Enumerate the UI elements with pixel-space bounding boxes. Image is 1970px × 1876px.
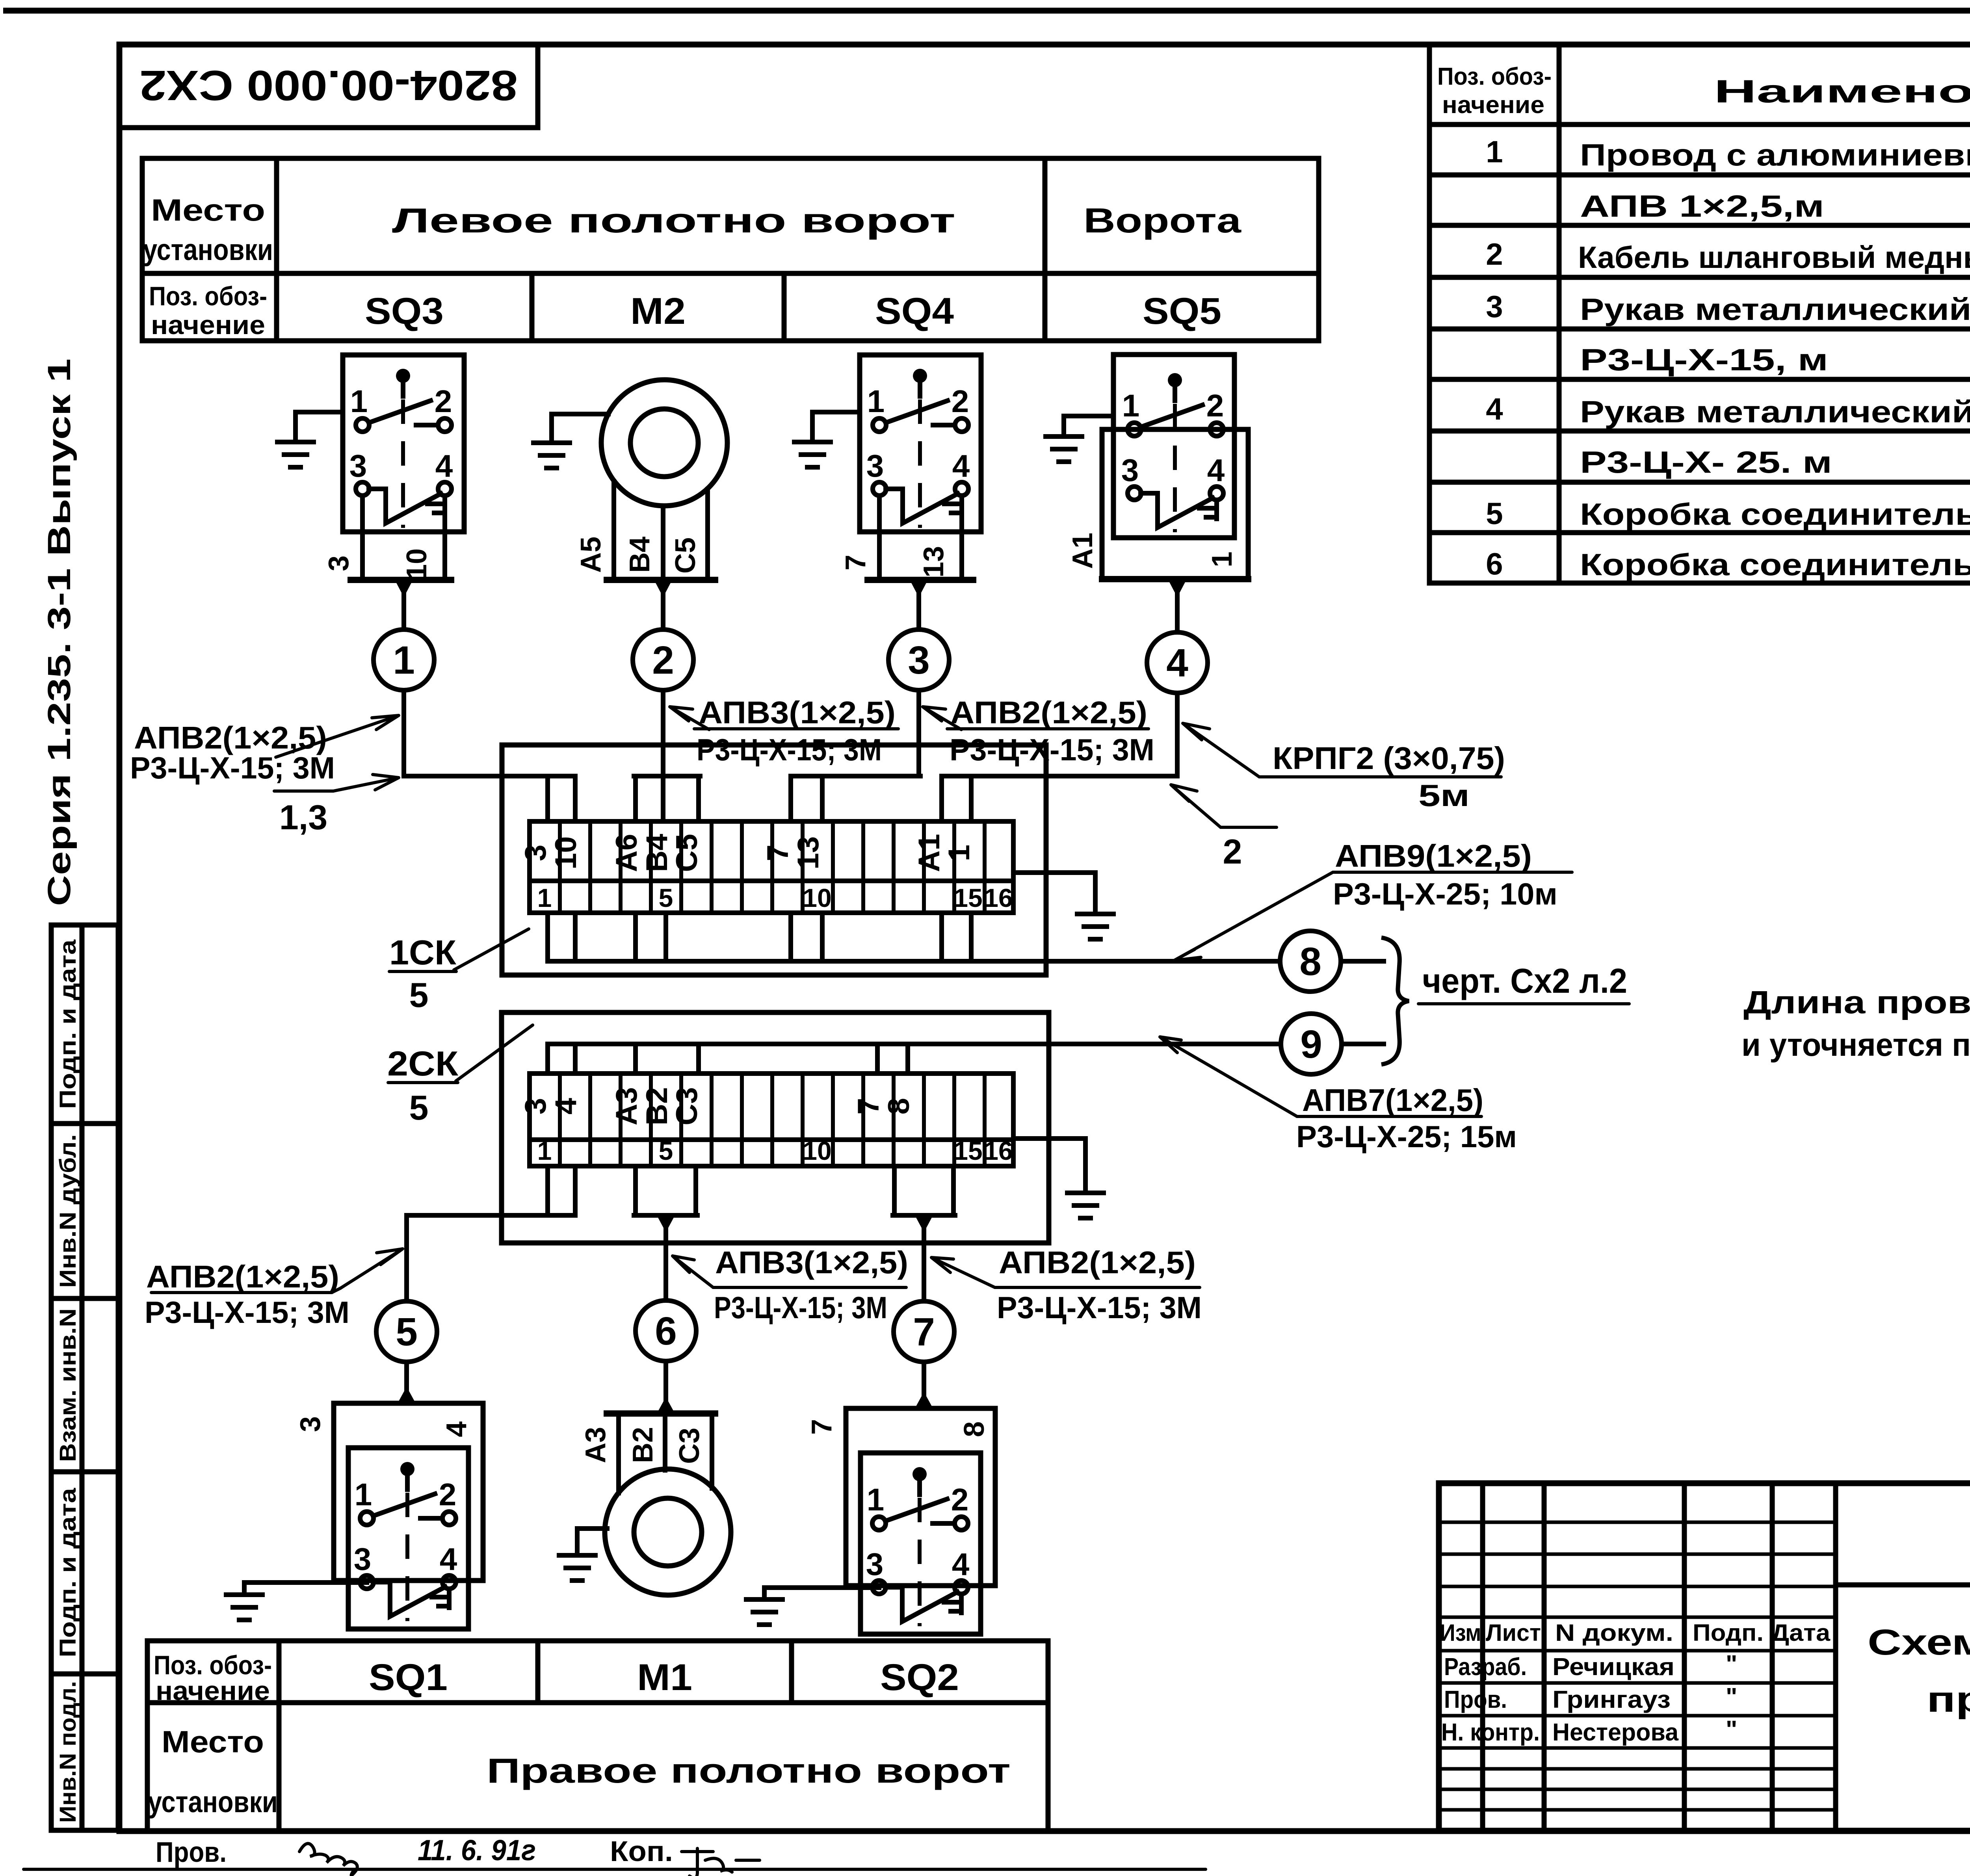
leader arrow to wire 5 — [340, 1249, 403, 1288]
svg-text:С5: С5 — [670, 537, 701, 574]
svg-text:6: 6 — [1486, 546, 1503, 581]
sheet top rule — [3, 8, 1970, 14]
svg-text:Р3-Ц-Х-25; 10м: Р3-Ц-Х-25; 10м — [1333, 877, 1557, 911]
svg-text:Коробка соединительная КСК-32: Коробка соединительная КСК-32 — [1580, 547, 1970, 582]
bus under M2 — [607, 577, 715, 583]
svg-text:13: 13 — [792, 836, 825, 870]
cable stem to circle 2 — [661, 580, 665, 630]
svg-text:3: 3 — [295, 1416, 326, 1432]
svg-text:4: 4 — [1166, 641, 1188, 685]
svg-text:10: 10 — [803, 1136, 831, 1165]
left sidebar column — [51, 925, 118, 1830]
svg-text:Поз. обоз-: Поз. обоз- — [1437, 63, 1552, 90]
svg-text:": " — [1726, 1716, 1737, 1743]
wire 6 to M1 — [663, 1361, 668, 1414]
top-left stamp box (inverted) 8204-00.000 CX2 — [119, 45, 538, 128]
ground of M1 — [559, 1529, 607, 1581]
svg-text:Лист: Лист — [1486, 1620, 1541, 1646]
wire 9 right stub — [1342, 1042, 1384, 1046]
svg-text:и уточняется при привязке п: и уточняется при привязке проекта. — [1741, 1027, 1970, 1063]
svg-text:Длина проводок 8,9 дана ори: Длина проводок 8,9 дана ориентировочно — [1743, 984, 1970, 1020]
svg-text:С5: С5 — [670, 834, 704, 872]
ground of SQ5 — [1046, 416, 1113, 462]
svg-text:установки: установки — [143, 233, 273, 267]
wire 4 down and left into box 1CK — [942, 693, 1177, 776]
cable marker triangle 6 bottom — [657, 1397, 675, 1414]
svg-text:Подп. и дата: Подп. и дата — [55, 1488, 81, 1657]
ground of SQ1 — [226, 1583, 367, 1620]
ground of 2CK — [1013, 1139, 1104, 1218]
svg-text:5м: 5м — [1418, 778, 1470, 813]
wire 7 from 2CK to circle 7 — [922, 1215, 926, 1301]
conduit stubs below strip 2CK — [548, 1166, 953, 1215]
wire 8 out of box — [1046, 959, 1280, 964]
cable stem to circle 3 — [916, 580, 921, 630]
svg-text:5: 5 — [409, 975, 429, 1014]
svg-text:SQ4: SQ4 — [875, 290, 954, 332]
svg-text:Р3-Ц-Х-15; 3М: Р3-Ц-Х-15; 3М — [145, 1295, 349, 1330]
svg-text:Кабель шланговый медный КРПГ3×: Кабель шланговый медный КРПГ3×0,75,м — [1578, 240, 1970, 275]
svg-text:11. 6. 91г: 11. 6. 91г — [418, 1834, 536, 1867]
cable circle 8 — [1280, 931, 1341, 992]
svg-text:1СК: 1СК — [389, 933, 456, 972]
svg-text:Инв.N дубл.: Инв.N дубл. — [55, 1134, 81, 1288]
svg-text:8: 8 — [882, 1098, 916, 1114]
row Разраб Речицкая — [1444, 1651, 1737, 1681]
conduit bar group B — [634, 774, 700, 778]
svg-text:8: 8 — [959, 1421, 990, 1437]
svg-text:А1: А1 — [1067, 533, 1098, 569]
title Схема внешних проводок — [1868, 1622, 1970, 1720]
ground of SQ3 — [277, 412, 343, 467]
cable marker triangle 4 — [1168, 580, 1186, 597]
svg-text:Наименование: Наименование — [1714, 74, 1970, 110]
cable marker triangle 1 — [395, 580, 413, 597]
svg-text:1: 1 — [537, 1136, 552, 1165]
svg-text:начение: начение — [156, 1676, 270, 1706]
svg-text:5: 5 — [396, 1310, 418, 1354]
label АПВ2 cable 5 — [145, 1259, 349, 1330]
svg-text:1,3: 1,3 — [279, 798, 327, 837]
leader arrow to wire 7 — [931, 1257, 995, 1287]
leader arrow to wire 9 — [1160, 1037, 1297, 1116]
svg-text:Рукав металлический гибкий: Рукав металлический гибкий — [1580, 394, 1970, 429]
svg-text:2: 2 — [1486, 237, 1503, 271]
wire 6 from 2CK to circle 6 — [663, 1215, 668, 1300]
bottom location table — [147, 1641, 1048, 1831]
svg-text:SQ2: SQ2 — [880, 1657, 959, 1698]
limit switch SQ3 — [343, 355, 464, 532]
title block — [1439, 1483, 1970, 1831]
limit switch SQ4 — [860, 355, 981, 532]
svg-text:1: 1 — [1206, 552, 1238, 567]
svg-text:АПВ 1×2,5,м: АПВ 1×2,5,м — [1580, 189, 1824, 223]
svg-text:Поз. обоз-: Поз. обоз- — [149, 281, 267, 311]
motor M2 — [601, 380, 727, 506]
svg-text:16: 16 — [984, 883, 1013, 912]
leader arrow to wire 6 — [673, 1256, 713, 1287]
wire 1 down and into box 1CK — [404, 690, 575, 776]
wire 5 bar under 2CK cells 1-2 — [407, 1213, 575, 1218]
wire 3 down to box 1CK — [916, 690, 921, 776]
svg-text:Р3-Ц-Х-15; 3М: Р3-Ц-Х-15; 3М — [714, 1290, 887, 1325]
svg-text:АПВ2(1×2,5): АПВ2(1×2,5) — [999, 1245, 1196, 1280]
wire 8 right stub — [1341, 959, 1384, 964]
conduit bottom bar group C 2CK — [893, 1213, 955, 1218]
wire 8 collector bar in 1CK — [548, 959, 1046, 964]
parts list table — [1429, 45, 1970, 583]
svg-text:Р3-Ц-Х-15, м: Р3-Ц-Х-15, м — [1580, 342, 1828, 377]
wire SQ3 pin4 to bus — [442, 496, 447, 580]
svg-text:КРПГ2 (3×0,75): КРПГ2 (3×0,75) — [1273, 741, 1505, 776]
wire 5 from 2CK to circle 5 — [404, 1215, 409, 1301]
svg-text:Р3-Ц-Х-15; 3М: Р3-Ц-Х-15; 3М — [697, 732, 882, 767]
cable marker triangle 6 top — [657, 1215, 675, 1232]
conduit bar group C — [791, 774, 920, 778]
label 2 with leader — [1171, 785, 1277, 871]
leader arrow to wire 3 — [923, 707, 961, 730]
svg-text:черт. Сх2 л.2: черт. Сх2 л.2 — [1422, 961, 1627, 1000]
limit switch SQ1 — [334, 1403, 483, 1629]
svg-text:АПВ2(1×2,5): АПВ2(1×2,5) — [950, 695, 1147, 730]
label АПВ2 cable 7 — [995, 1245, 1202, 1325]
svg-text:С3: С3 — [674, 1428, 705, 1464]
leader arrow to wire 2 — [670, 707, 709, 730]
cable marker triangle 3 — [910, 580, 928, 597]
svg-text:13: 13 — [918, 546, 950, 578]
label АПВ3 cable 2 — [694, 695, 898, 767]
leader 2CK — [456, 1025, 533, 1081]
svg-text:1: 1 — [942, 845, 976, 861]
ground of SQ2 — [746, 1588, 879, 1625]
svg-text:В2: В2 — [640, 1087, 674, 1125]
svg-text:Р3-Ц-Х-15; 3М: Р3-Ц-Х-15; 3М — [950, 732, 1154, 767]
cable circle 2 — [633, 630, 693, 690]
bus over M1 — [607, 1410, 715, 1417]
wire 9 out of box — [1049, 1042, 1281, 1046]
svg-text:1: 1 — [1486, 134, 1503, 169]
bus under SQ5 — [1102, 576, 1248, 582]
svg-text:АПВ2(1×2,5): АПВ2(1×2,5) — [146, 1259, 339, 1294]
svg-text:проводок: проводок — [1927, 1679, 1970, 1720]
svg-text:2: 2 — [652, 638, 674, 682]
svg-text:Подп. и дата: Подп. и дата — [55, 939, 81, 1109]
svg-text:N докум.: N докум. — [1555, 1620, 1673, 1646]
svg-text:7: 7 — [840, 555, 872, 570]
svg-text:Инв.N подл.: Инв.N подл. — [55, 1681, 81, 1823]
cable marker triangle 7 top — [915, 1215, 933, 1232]
svg-text:Место: Место — [151, 193, 265, 227]
svg-text:3: 3 — [519, 845, 552, 861]
header row Изм Лист N докум Подп Дата — [1440, 1620, 1831, 1646]
wire SQ4 pin4 to bus — [959, 496, 964, 580]
svg-text:В4: В4 — [640, 834, 674, 872]
handwritten signature 1 — [299, 1844, 357, 1876]
svg-text:АПВ3(1×2,5): АПВ3(1×2,5) — [715, 1245, 908, 1280]
svg-text:начение: начение — [1442, 91, 1544, 119]
brace for sheet reference — [1381, 938, 1409, 1064]
svg-text:Серия 1.235. 3-1 Выпуск 1: Серия 1.235. 3-1 Выпуск 1 — [41, 358, 77, 906]
svg-text:А3: А3 — [610, 1087, 643, 1125]
svg-text:Р3-Ц-Х-25; 15м: Р3-Ц-Х-25; 15м — [1296, 1119, 1517, 1154]
limit switch SQ5 — [1102, 355, 1248, 579]
row Н.контр Нестерова — [1441, 1716, 1737, 1746]
label АПВ3 cable 6 — [713, 1245, 908, 1325]
svg-text:3: 3 — [908, 638, 930, 682]
svg-text:15: 15 — [953, 1136, 982, 1165]
svg-text:Н. контр.: Н. контр. — [1441, 1719, 1540, 1746]
svg-text:SQ5: SQ5 — [1143, 290, 1221, 332]
cable circle 9 — [1281, 1014, 1342, 1074]
svg-text:С3: С3 — [670, 1087, 704, 1125]
bottom margin rule — [24, 1868, 1206, 1871]
junction box 2CK — [502, 1012, 1049, 1243]
conduit stubs above strip 1CK — [548, 776, 971, 821]
ground of 1CK — [1013, 873, 1113, 939]
svg-text:5: 5 — [659, 883, 673, 912]
svg-text:Грингауз: Грингауз — [1552, 1686, 1671, 1713]
svg-text:А6: А6 — [610, 834, 643, 872]
label КРПГ2 cable 4 — [1259, 741, 1505, 813]
svg-text:M2: M2 — [630, 290, 686, 332]
leader arrow to wire 8 — [1174, 872, 1333, 960]
cable marker triangle 7 bottom — [915, 1392, 933, 1408]
svg-text:Правое полотно ворот: Правое полотно ворот — [487, 1751, 1011, 1790]
svg-text:2: 2 — [1223, 832, 1242, 871]
conduit stubs below strip 1CK — [548, 913, 971, 961]
wire 9 collector bar in 2CK — [548, 1042, 1049, 1046]
label АПВ9 cable 8 — [1333, 838, 1572, 911]
leader arrow to wire 4 — [1183, 723, 1259, 777]
svg-text:Провод с алюминиевыми жилами: Провод с алюминиевыми жилами — [1580, 137, 1970, 172]
svg-text:Нестерова: Нестерова — [1552, 1719, 1679, 1746]
bus under SQ3 — [351, 577, 451, 583]
svg-text:8: 8 — [1299, 940, 1321, 984]
svg-text:начение: начение — [151, 310, 265, 340]
svg-text:В4: В4 — [624, 537, 656, 573]
leader arrow to wire 1 lower — [333, 775, 399, 791]
svg-text:АПВ9(1×2,5): АПВ9(1×2,5) — [1335, 838, 1532, 873]
svg-text:Место: Место — [162, 1724, 264, 1759]
svg-text:5: 5 — [659, 1136, 673, 1165]
wire 5 to SQ1 — [404, 1362, 409, 1403]
svg-text:10: 10 — [549, 836, 583, 870]
svg-text:": " — [1726, 1651, 1737, 1678]
svg-text:Пров.: Пров. — [156, 1837, 227, 1868]
terminal strip of 1CK — [530, 821, 1013, 913]
svg-text:Ворота: Ворота — [1083, 201, 1241, 240]
conduit bottom bar group B 2CK — [634, 1213, 697, 1218]
svg-text:5: 5 — [409, 1088, 429, 1127]
svg-text:Изм: Изм — [1440, 1620, 1481, 1646]
label 1CK / 5 — [389, 933, 456, 1014]
cable stem to circle 1 — [401, 580, 406, 630]
svg-text:Пров.: Пров. — [1444, 1686, 1507, 1713]
svg-text:Коробка соединительная КСК-16: Коробка соединительная КСК-16 — [1580, 497, 1970, 531]
wire 7 to SQ2 — [922, 1362, 926, 1408]
motor M2 phase wires — [614, 481, 708, 580]
svg-text:АПВ3(1×2,5): АПВ3(1×2,5) — [699, 695, 896, 730]
svg-text:8204-00.000 CX2: 8204-00.000 CX2 — [139, 62, 518, 110]
svg-text:4: 4 — [549, 1098, 583, 1114]
svg-text:7: 7 — [852, 1098, 885, 1114]
limit switch SQ2 — [846, 1408, 995, 1634]
svg-text:А3: А3 — [580, 1427, 611, 1463]
conduit stubs above strip 2CK — [548, 1044, 908, 1074]
svg-text:7: 7 — [913, 1310, 935, 1354]
svg-text:15: 15 — [953, 883, 982, 912]
svg-text:Подп.: Подп. — [1693, 1620, 1764, 1646]
bus under SQ4 — [868, 577, 973, 583]
svg-text:6: 6 — [655, 1309, 677, 1353]
ground of M2 — [533, 414, 608, 468]
svg-text:Р3-Ц-Х-15; 3М: Р3-Ц-Х-15; 3М — [130, 750, 335, 785]
svg-text:SQ3: SQ3 — [365, 290, 444, 332]
svg-text:5: 5 — [1486, 496, 1503, 531]
svg-text:Взам. инв.N: Взам. инв.N — [55, 1308, 81, 1462]
svg-text:M1: M1 — [637, 1657, 692, 1698]
svg-text:": " — [1726, 1683, 1737, 1711]
row Пров Грингауз — [1444, 1683, 1737, 1713]
svg-text:4: 4 — [441, 1421, 472, 1437]
svg-text:1: 1 — [393, 638, 415, 682]
leader arrow to wire 1 upper — [276, 715, 399, 757]
svg-text:Схема внешних: Схема внешних — [1868, 1622, 1970, 1662]
label АПВ7 cable 9 — [1296, 1083, 1517, 1154]
svg-text:Коп.: Коп. — [610, 1836, 673, 1867]
cable marker triangle 2 — [654, 580, 672, 597]
svg-text:3: 3 — [323, 555, 355, 571]
svg-text:SQ1: SQ1 — [369, 1657, 448, 1698]
svg-text:Р3-Ц-Х-15; 3М: Р3-Ц-Х-15; 3М — [997, 1290, 1202, 1325]
svg-text:А5: А5 — [575, 537, 607, 573]
svg-text:установки: установки — [148, 1785, 278, 1819]
svg-text:АПВ7(1×2,5): АПВ7(1×2,5) — [1302, 1083, 1483, 1118]
svg-text:3: 3 — [1486, 289, 1503, 324]
leader 1CK — [454, 929, 529, 970]
terminal strip of 2CK — [530, 1074, 1013, 1166]
svg-text:В2: В2 — [627, 1427, 659, 1463]
top location table — [142, 158, 1319, 341]
svg-text:16: 16 — [984, 1136, 1013, 1165]
label АПВ2 cable 3 — [947, 695, 1154, 767]
cable circle 7 — [894, 1301, 954, 1362]
svg-text:Рукав металлический гибкий: Рукав металлический гибкий — [1580, 292, 1970, 327]
handwritten signature 2 — [682, 1848, 760, 1876]
label АПВ2 cable 1 — [130, 720, 335, 791]
cable stem to circle 4 — [1175, 580, 1180, 632]
svg-text:А1: А1 — [913, 834, 946, 872]
wire 2 down into terminal 5 of 1CK — [661, 690, 665, 821]
cable marker triangle 5 — [398, 1387, 416, 1403]
svg-text:7: 7 — [806, 1419, 838, 1435]
svg-text:10: 10 — [803, 883, 831, 912]
ground of SQ4 — [794, 412, 860, 467]
svg-text:9: 9 — [1300, 1022, 1322, 1066]
wire SQ3 pin3 to bus — [360, 496, 365, 580]
cable circle 1 — [374, 630, 434, 690]
svg-text:3: 3 — [519, 1098, 552, 1114]
cable circle 4 — [1147, 632, 1208, 693]
motor M1 — [605, 1469, 731, 1595]
label черт. Сх2 л.2 — [1418, 961, 1629, 1004]
svg-text:Дата: Дата — [1771, 1620, 1831, 1646]
svg-text:Разраб.: Разраб. — [1444, 1653, 1527, 1681]
svg-text:2СК: 2СК — [387, 1044, 458, 1083]
svg-text:Р3-Ц-Х- 25. м: Р3-Ц-Х- 25. м — [1580, 445, 1832, 479]
junction box 1CK — [502, 745, 1046, 975]
cable circle 3 — [888, 630, 949, 690]
svg-text:7: 7 — [761, 845, 795, 861]
motor M1 phase wires — [619, 1414, 712, 1493]
cable circle 5 — [376, 1301, 437, 1362]
cable circle 6 — [636, 1300, 696, 1361]
svg-text:Левое полотно ворот: Левое полотно ворот — [392, 201, 955, 240]
svg-text:Речицкая: Речицкая — [1552, 1653, 1674, 1681]
svg-text:1: 1 — [537, 883, 552, 912]
wire SQ4 pin3 to bus — [877, 496, 882, 580]
svg-text:4: 4 — [1486, 392, 1503, 426]
svg-text:10: 10 — [401, 548, 433, 580]
label 2CK / 5 — [387, 1044, 458, 1127]
